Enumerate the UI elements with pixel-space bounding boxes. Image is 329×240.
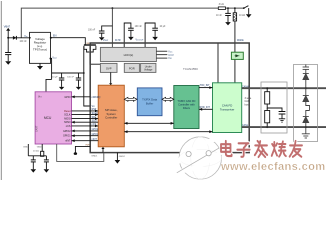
pin label MCU GND right xyxy=(37,146,42,148)
svg-text:WAKE: WAKE xyxy=(237,39,244,42)
wire SCLK row xyxy=(72,112,99,116)
pin label GND1 xyxy=(91,156,98,158)
block filter WAKE xyxy=(231,52,243,59)
pin label VCCOUT xyxy=(136,40,145,42)
svg-text:nINT: nINT xyxy=(65,140,71,143)
ground switch xyxy=(246,14,252,17)
capacitor C6 10uF LDO xyxy=(145,23,166,47)
node VBAT xyxy=(4,24,11,52)
pin label MCU MISO xyxy=(64,121,70,124)
pin label MCU GND left xyxy=(23,146,28,148)
ground C6 xyxy=(152,37,158,40)
bus arrow SPI to buffer xyxy=(124,97,137,101)
pin label MCU MOSI xyxy=(64,118,71,121)
svg-text:10 µF: 10 µF xyxy=(52,77,58,79)
wire MCU bottom bus xyxy=(28,155,46,157)
resistor R5 termination lower xyxy=(265,111,270,129)
node EN regulator enable xyxy=(50,34,57,38)
diode D3 TVS xyxy=(303,88,309,101)
svg-text:Vin: Vin xyxy=(24,35,27,38)
svg-text:VCCOUT: VCCOUT xyxy=(136,40,145,42)
wire INH transistor to OVP block xyxy=(90,52,101,64)
watermark text elecfans xyxy=(220,161,326,173)
pin label MCU GPIO1 xyxy=(63,135,71,138)
wire SDO row xyxy=(72,119,99,123)
block Under Voltage xyxy=(141,63,156,72)
ground TVS xyxy=(302,134,310,138)
block LDO(s) xyxy=(100,47,156,61)
wire CANL bus line xyxy=(242,126,326,128)
resistor R2 10k wake xyxy=(233,7,245,21)
block CAN FD Controller with Filters xyxy=(174,86,199,129)
svg-text:RST: RST xyxy=(92,108,97,111)
ground C5 xyxy=(128,37,134,40)
wire VIO to TCAN VIO pin xyxy=(83,47,90,107)
voltage regulator U2 (TPS7xxxx) xyxy=(24,32,50,63)
wire VIO feed to MCU xyxy=(46,79,52,91)
block SPI slave System Controller xyxy=(98,85,124,147)
capacitor C5 100nF LDO xyxy=(124,23,142,47)
wire VBAT top rail xyxy=(21,8,244,38)
svg-text:GND2: GND2 xyxy=(119,156,126,158)
svg-text:100 nF: 100 nF xyxy=(88,30,96,32)
svg-text:Vout: Vout xyxy=(52,57,57,60)
capacitor C11 TVS top xyxy=(303,65,309,74)
wire VBAT to regulator VIN xyxy=(8,37,29,39)
pin label MCU GPIO2 xyxy=(63,130,71,133)
box termination network xyxy=(261,82,287,133)
svg-text:TPS7xxxx): TPS7xxxx) xyxy=(33,48,47,52)
ground C2 xyxy=(59,87,64,90)
wire GND up arrow into SPI controller xyxy=(101,147,104,153)
ground termination cap xyxy=(279,119,285,122)
block TX/RX Data Buffer xyxy=(137,88,162,116)
diode D1 series VBAT xyxy=(13,36,17,40)
svg-text:MCU: MCU xyxy=(44,116,52,120)
svg-text:GND1: GND1 xyxy=(91,156,98,158)
svg-text:nCS: nCS xyxy=(92,123,97,126)
svg-text:www.elecfans.com: www.elecfans.com xyxy=(220,161,326,173)
svg-text:SDO: SDO xyxy=(92,119,97,122)
svg-text:Filters: Filters xyxy=(183,106,191,110)
wire CANH bus line xyxy=(242,87,326,89)
capacitor C2 10uF VCC rail xyxy=(52,73,64,87)
wire LDO output 1 xyxy=(156,51,173,53)
svg-text:GPO1: GPO1 xyxy=(92,133,99,136)
pin label MCU SCLK xyxy=(64,114,71,117)
node CANH xyxy=(242,85,249,88)
ground C8 xyxy=(31,169,37,172)
svg-text:10 µF: 10 µF xyxy=(160,26,167,28)
diode D2 TVS xyxy=(303,74,309,90)
block OVP xyxy=(100,63,117,72)
ground TCAN GND2 xyxy=(115,153,121,164)
bus arrow buffer to controller xyxy=(162,97,174,101)
capacitor C9 MCU right xyxy=(44,156,49,170)
pin label MCU nCS xyxy=(66,125,71,128)
svg-text:10 kΩ: 10 kΩ xyxy=(239,15,245,17)
svg-text:Buffer: Buffer xyxy=(146,101,153,105)
pin label WAKE xyxy=(237,39,244,42)
capacitor C1 VBAT input cap xyxy=(5,41,27,61)
wire nCS row xyxy=(72,123,99,127)
svg-text:INH: INH xyxy=(86,145,90,147)
svg-text:EN: EN xyxy=(53,34,57,37)
svg-text:3 kΩ: 3 kΩ xyxy=(219,3,224,6)
pin label MCU Reset xyxy=(64,110,71,113)
wire RXD_INT xyxy=(199,106,213,111)
svg-text:20 kΩ: 20 kΩ xyxy=(33,150,39,152)
svg-text:3.3 V: 3.3 V xyxy=(168,55,174,57)
pin label MCU GPIO xyxy=(64,96,70,99)
pin label FLTR xyxy=(115,40,121,42)
pin label VSUP xyxy=(103,40,109,42)
wire OVP to SPI controller xyxy=(109,72,112,85)
wire LDO output 2 xyxy=(156,55,174,57)
wire LDO output 3 xyxy=(156,58,172,60)
svg-text:POR: POR xyxy=(129,66,135,70)
svg-text:SCLK: SCLK xyxy=(92,112,99,115)
wire TXD_INT xyxy=(199,84,213,89)
diode D4 TVS xyxy=(303,117,309,134)
svg-text:Transceiver: Transceiver xyxy=(220,107,235,111)
ground regulator xyxy=(37,63,43,69)
svg-text:SCLK: SCLK xyxy=(64,114,71,117)
resistor R4 termination upper xyxy=(265,87,270,104)
svg-text:TCAN4550: TCAN4550 xyxy=(183,67,198,71)
svg-text:MOSI: MOSI xyxy=(64,118,71,121)
svg-text:100 nF: 100 nF xyxy=(20,41,28,43)
svg-text:SDI: SDI xyxy=(92,116,96,119)
svg-text:FLTR: FLTR xyxy=(115,40,121,42)
wire termination midpoint xyxy=(267,104,282,112)
svg-text:100 nF: 100 nF xyxy=(67,77,74,79)
svg-text:GPIO: GPIO xyxy=(64,96,70,99)
IC U1 TCAN4550 outline xyxy=(90,43,249,153)
block MCU xyxy=(35,92,71,144)
svg-text:VIO: VIO xyxy=(38,95,42,98)
svg-text:OVP: OVP xyxy=(106,66,112,70)
svg-text:nWKRQ: nWKRQ xyxy=(92,96,101,99)
wire INH stub xyxy=(74,145,90,155)
capacitor C10 termination xyxy=(279,112,286,119)
wire SDI row xyxy=(72,116,99,120)
wire MCU ground return xyxy=(57,144,104,161)
wire WAKE to transceiver xyxy=(234,59,236,82)
wire TVS jog xyxy=(306,102,310,117)
svg-text:TX/RX CAN FD: TX/RX CAN FD xyxy=(177,99,195,103)
svg-text:VIO: VIO xyxy=(168,58,172,60)
ground VBAT cap xyxy=(5,61,11,65)
wire SPI to controller xyxy=(124,122,174,125)
wire VSUP to transceiver xyxy=(217,44,219,83)
ground C9 xyxy=(44,169,50,172)
ground C4 xyxy=(99,37,105,40)
switch SW1 wake xyxy=(243,6,249,15)
pin label TCAN VIO xyxy=(92,105,96,108)
box TVS protection xyxy=(294,65,318,142)
svg-text:Controller with: Controller with xyxy=(178,103,195,107)
svg-text:UART: UART xyxy=(35,125,38,132)
frame left border xyxy=(0,1,2,180)
svg-text:TXD_INT: TXD_INT xyxy=(200,84,211,87)
svg-text:100 nF: 100 nF xyxy=(135,26,143,28)
node VOUT regulator output xyxy=(50,57,58,60)
capacitor C4 100nF VSUP xyxy=(88,26,112,37)
svg-text:GPIO2: GPIO2 xyxy=(63,130,71,133)
transistor Q1 INH pass device xyxy=(84,43,96,52)
block CAN FD Transceiver xyxy=(213,83,242,133)
svg-text:GND: GND xyxy=(37,146,42,148)
wire MCU bottom stub 1 xyxy=(27,144,29,156)
wire GPO2 row xyxy=(72,128,99,132)
pin label MCU nINT xyxy=(65,140,71,143)
ground C7 xyxy=(225,22,231,25)
wire EN to INH transistor xyxy=(51,38,86,45)
svg-text:Reset: Reset xyxy=(64,110,71,113)
resistor R1 3k series xyxy=(218,3,225,9)
capacitor C8 MCU left xyxy=(31,156,36,170)
wire RST row xyxy=(72,108,99,112)
svg-text:VSUP: VSUP xyxy=(103,40,109,42)
ground C3 xyxy=(76,87,81,90)
svg-text:GPIO1: GPIO1 xyxy=(63,135,71,138)
label TCAN4550 xyxy=(183,67,198,71)
capacitor C7 wake filter xyxy=(216,7,231,22)
wire nWKRQ row xyxy=(72,95,101,98)
block POR xyxy=(124,63,139,72)
node CANL xyxy=(242,124,249,127)
pin label GND2 xyxy=(119,156,126,158)
svg-text:VCC: VCC xyxy=(168,51,173,53)
wire VSUP drop from top rail xyxy=(111,7,113,47)
svg-text:10 nF: 10 nF xyxy=(216,15,222,17)
wire GPO1 row xyxy=(72,133,99,137)
wire nINT row xyxy=(72,138,99,142)
watermark globe logo xyxy=(172,132,232,179)
svg-text:nINT: nINT xyxy=(92,138,98,141)
label split termination note xyxy=(245,97,252,106)
svg-text:GND: GND xyxy=(23,146,28,148)
svg-text:GPO2: GPO2 xyxy=(92,128,99,131)
svg-text:MISO: MISO xyxy=(64,121,70,124)
wire WAKE vertical xyxy=(234,21,236,52)
svg-text:Controller: Controller xyxy=(105,116,117,120)
watermark text dianzifashaoyou xyxy=(221,141,302,157)
svg-text:nCS: nCS xyxy=(66,125,71,128)
svg-text:LDO(s): LDO(s) xyxy=(124,53,134,57)
wire VOUT rail xyxy=(51,59,84,80)
wire SPI to transceiver xyxy=(124,130,212,133)
resistor R3 MCU bottom xyxy=(33,144,44,156)
capacitor C3 100nF VCC rail xyxy=(67,73,81,87)
svg-text:Voltage: Voltage xyxy=(144,68,153,71)
